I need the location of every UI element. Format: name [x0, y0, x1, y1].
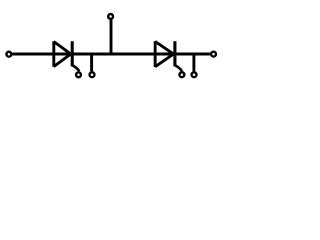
thyristor Q2 gate lead: [175, 66, 182, 72]
thyristor Q1 anode triangle: [54, 41, 71, 67]
thyristor Q1 cathode bar: [71, 41, 74, 66]
thyristor Q1 gate terminal: [76, 72, 81, 77]
thyristor Q1 auxiliary cathode terminal: [90, 72, 95, 77]
wire top terminal stem: [110, 19, 113, 54]
wire Q1 auxiliary cathode lead: [90, 54, 93, 71]
thyristor Q2 auxiliary cathode terminal: [192, 72, 197, 77]
terminal 2 (right): [211, 52, 216, 57]
thyristor Q2 anode triangle: [155, 41, 173, 67]
wire Q2 auxiliary cathode lead: [192, 54, 195, 71]
dual thyristor module schematic: [0, 0, 223, 91]
wire main horizontal bus: [12, 53, 210, 56]
thyristor Q1 gate lead: [73, 66, 80, 72]
thyristor Q2 gate terminal: [179, 72, 184, 77]
terminal 1 (left): [6, 52, 11, 57]
terminal 3 (top): [108, 14, 113, 19]
thyristor Q2 cathode bar: [173, 41, 176, 66]
